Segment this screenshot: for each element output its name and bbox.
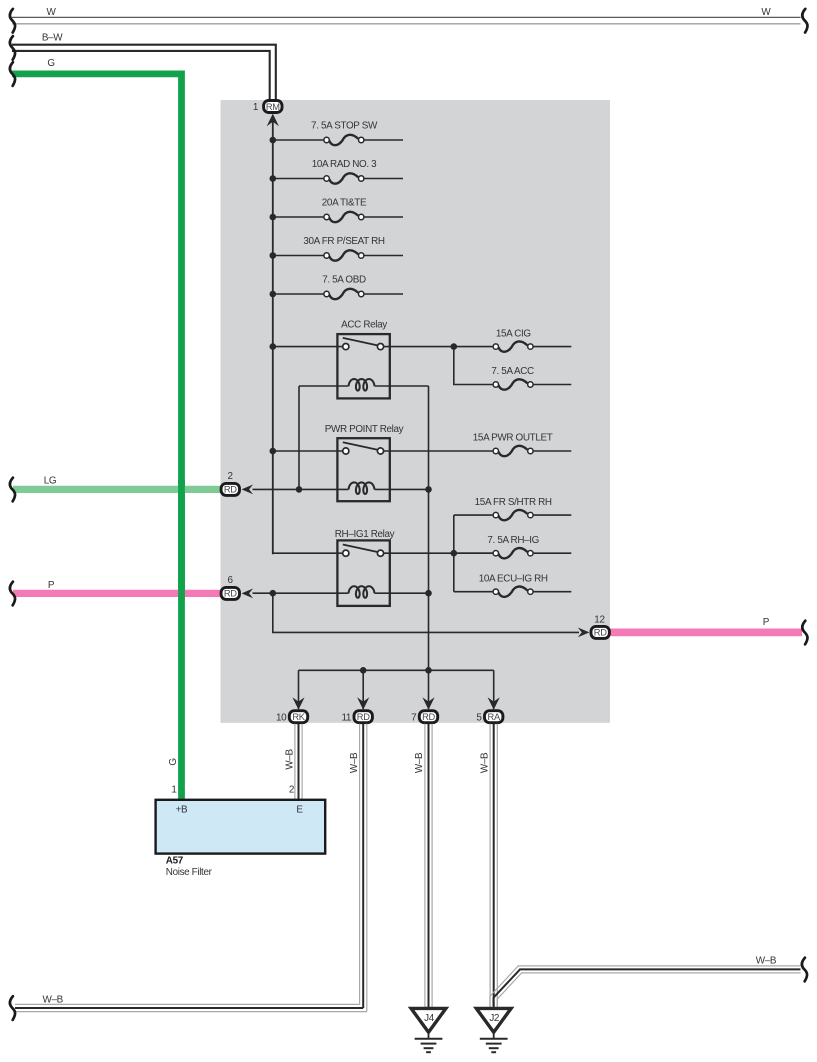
svg-text:RD: RD xyxy=(224,485,237,495)
svg-text:G: G xyxy=(168,758,179,765)
svg-text:15A FR S/HTR RH: 15A FR S/HTR RH xyxy=(475,497,552,508)
svg-text:20A TI&TE: 20A TI&TE xyxy=(322,198,367,209)
svg-text:10: 10 xyxy=(276,712,287,723)
svg-text:PWR POINT Relay: PWR POINT Relay xyxy=(325,424,404,435)
svg-text:1: 1 xyxy=(253,102,259,113)
svg-text:2: 2 xyxy=(289,784,294,795)
svg-text:W: W xyxy=(761,7,771,18)
svg-text:7: 7 xyxy=(411,712,416,723)
svg-text:7. 5A OBD: 7. 5A OBD xyxy=(322,275,366,286)
svg-text:W–B: W–B xyxy=(414,752,425,773)
svg-text:J2: J2 xyxy=(489,1013,499,1024)
svg-text:15A CIG: 15A CIG xyxy=(496,328,531,339)
svg-text:RM: RM xyxy=(266,102,280,112)
svg-text:30A FR P/SEAT RH: 30A FR P/SEAT RH xyxy=(303,236,385,247)
svg-text:RH–IG1 Relay: RH–IG1 Relay xyxy=(335,529,395,540)
svg-text:1: 1 xyxy=(171,784,177,795)
svg-text:7. 5A ACC: 7. 5A ACC xyxy=(491,366,534,377)
svg-text:W–B: W–B xyxy=(349,752,360,773)
svg-text:6: 6 xyxy=(227,575,233,586)
svg-text:7. 5A RH–IG: 7. 5A RH–IG xyxy=(487,535,539,546)
svg-text:G: G xyxy=(47,58,54,69)
svg-text:W: W xyxy=(47,7,57,18)
svg-text:W–B: W–B xyxy=(756,956,777,967)
svg-text:ACC Relay: ACC Relay xyxy=(341,319,387,330)
svg-text:RD: RD xyxy=(357,712,370,722)
svg-text:LG: LG xyxy=(44,476,56,487)
svg-text:W–B: W–B xyxy=(479,752,490,773)
svg-text:RD: RD xyxy=(594,628,607,638)
svg-text:12: 12 xyxy=(594,615,604,626)
svg-text:RD: RD xyxy=(422,712,435,722)
svg-text:W–B: W–B xyxy=(284,749,295,770)
svg-text:7. 5A STOP SW: 7. 5A STOP SW xyxy=(311,121,378,132)
svg-text:B–W: B–W xyxy=(42,32,63,43)
svg-text:5: 5 xyxy=(476,712,482,723)
svg-text:11: 11 xyxy=(341,712,351,723)
svg-text:2: 2 xyxy=(227,471,232,482)
svg-text:E: E xyxy=(296,805,303,816)
svg-text:W–B: W–B xyxy=(43,995,64,1006)
svg-text:10A RAD NO. 3: 10A RAD NO. 3 xyxy=(312,159,377,170)
svg-text:J4: J4 xyxy=(424,1013,435,1024)
svg-text:Noise Filter: Noise Filter xyxy=(166,867,213,878)
svg-text:15A PWR OUTLET: 15A PWR OUTLET xyxy=(473,433,553,444)
svg-text:10A ECU–IG RH: 10A ECU–IG RH xyxy=(479,574,548,585)
svg-text:P: P xyxy=(763,617,770,628)
svg-text:RD: RD xyxy=(224,589,237,599)
svg-text:A57: A57 xyxy=(166,856,184,867)
svg-text:RA: RA xyxy=(488,712,501,722)
svg-text:+B: +B xyxy=(176,805,188,816)
svg-text:P: P xyxy=(48,580,55,591)
svg-text:RK: RK xyxy=(292,712,305,722)
